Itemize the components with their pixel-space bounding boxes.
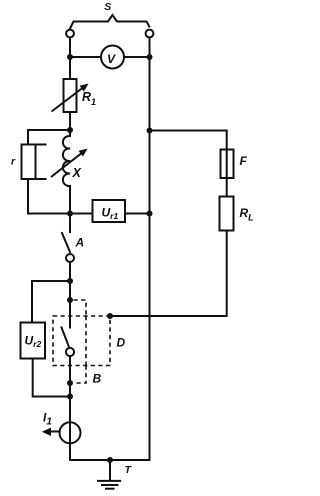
resistor RL (220, 197, 234, 231)
wire right terminal down (149, 39, 151, 58)
relay U_r2 box (21, 323, 46, 359)
switch S blade bar with chevron (70, 15, 149, 29)
node dot left below S (67, 54, 73, 60)
wire U_r1 row left (70, 213, 93, 215)
arrowhead I1 (42, 428, 51, 436)
wire left main A to B (69, 281, 71, 300)
arrowhead R1 (80, 84, 89, 92)
wire contact B down (69, 356, 71, 396)
dashed link top node to D (74, 300, 87, 316)
r top edge extension (36, 144, 46, 146)
wire left main through current source I1 (69, 397, 71, 461)
svg-text:B: B (93, 372, 102, 386)
relay U_r1 box (93, 200, 126, 222)
svg-text:V: V (107, 52, 116, 66)
wire voltmeter row left (70, 56, 101, 58)
node dot U_r2 return (67, 394, 73, 400)
wire F branch top (150, 131, 227, 150)
inductor X coil (63, 130, 70, 214)
svg-text:A: A (75, 236, 85, 250)
fuse F (221, 150, 234, 179)
dashed box D (53, 316, 110, 366)
ground bar 2 (101, 484, 119, 486)
wire R1 to node (69, 112, 71, 130)
arrow X shaft (51, 153, 82, 177)
wire r-branch bottom (28, 179, 70, 214)
ground bar 1 (97, 480, 121, 482)
node dot A bottom (67, 278, 73, 284)
svg-text:S: S (104, 1, 111, 13)
terminal circle left of S (66, 30, 74, 38)
dashed link inner vertical through D (85, 316, 87, 366)
resistor R1 (64, 79, 77, 112)
wire r-branch top (28, 130, 70, 145)
terminal circle right of S (146, 30, 154, 38)
ground stub (109, 460, 111, 480)
resistor r (22, 145, 36, 180)
wire contact A down (69, 262, 71, 281)
node dot B bottom (67, 380, 73, 386)
arrowhead X (79, 149, 88, 157)
node dot F branch (147, 128, 153, 134)
fuse F wire through down to RL (226, 150, 228, 197)
node dot right below S (147, 54, 153, 60)
wire U_r1 row right (125, 213, 150, 215)
contact B circle (66, 348, 74, 356)
ground bar 3 (105, 488, 115, 490)
contact A blade (62, 233, 70, 252)
wire left terminal down (69, 39, 71, 58)
wire left main to contact A (69, 214, 71, 233)
wire U_r2 branch bottom (33, 359, 70, 397)
dashed link D to bottom node (74, 366, 87, 384)
wire into contact B (69, 300, 71, 328)
node dot coil bottom (67, 211, 73, 217)
node dot B top (67, 297, 73, 303)
contact B blade (62, 328, 70, 348)
node dot ground tap (107, 457, 113, 463)
svg-text:X: X (72, 166, 82, 180)
current source I1 circle (60, 422, 81, 443)
svg-text:D: D (117, 336, 126, 350)
node dot D corner (107, 313, 113, 319)
r bottom edge extension (36, 178, 46, 180)
arrow R1 shaft (52, 88, 83, 112)
current source I1 arrow shaft (51, 431, 60, 433)
wire voltmeter row right (124, 56, 149, 58)
node dot R1 bottom (67, 127, 73, 133)
wire RL down and return left (110, 231, 227, 317)
contact A circle (66, 254, 74, 262)
node dot U_r1 right (147, 211, 153, 217)
wire bottom rail (70, 459, 150, 461)
wire left main down to R1 (69, 57, 71, 79)
wire U_r2 branch top (32, 281, 70, 323)
voltmeter V (101, 46, 124, 69)
svg-text:F: F (240, 154, 248, 168)
wire right main line (149, 57, 151, 460)
